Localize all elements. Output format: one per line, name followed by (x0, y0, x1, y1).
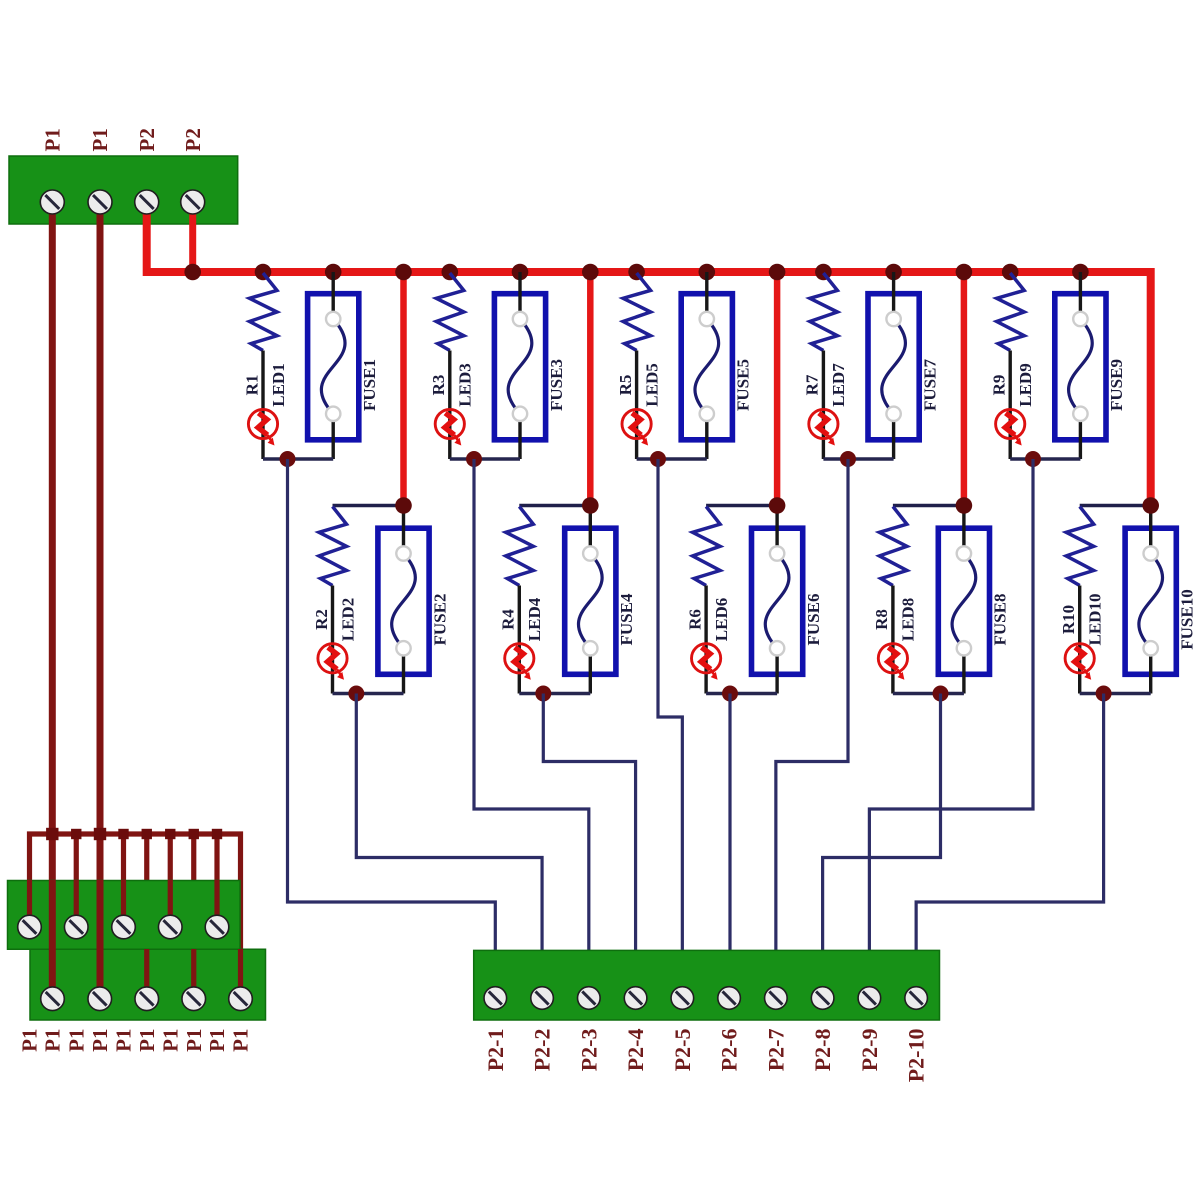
terminal TB4 screw P2-4 (624, 987, 647, 1010)
LED LED9 (996, 409, 1025, 445)
label P1 output 2 (41, 1029, 65, 1052)
wire P1 net vertical from TB1 pin 1 (49, 202, 56, 999)
wire channel 3 output to P2-3 (474, 459, 589, 958)
svg-text:FUSE8: FUSE8 (991, 594, 1010, 646)
terminal TB1 screw 2 (88, 190, 112, 214)
svg-text:P2-3: P2-3 (576, 1029, 601, 1072)
fuse FUSE3 pins (513, 312, 527, 421)
label LED5 (642, 363, 661, 406)
fuse FUSE6 pins (770, 546, 784, 655)
label R7 (803, 374, 822, 395)
wire R4 to LED4 (518, 586, 521, 694)
junction bus at R1 (255, 264, 272, 281)
terminal TB1 screw 3 (135, 190, 159, 214)
label P1 output 8 (182, 1029, 206, 1052)
svg-text:P1: P1 (41, 1029, 65, 1052)
junction drop at FUSE2 top (395, 497, 412, 514)
junction bus at R7 (815, 264, 832, 281)
fuse FUSE5 body (681, 294, 732, 440)
junction P1 bus (71, 829, 81, 839)
junction bus at drop 2 (395, 264, 412, 281)
svg-text:P1: P1 (229, 1029, 253, 1052)
wire FUSE5 bottom lead (705, 414, 708, 459)
fuse FUSE7 element curve (882, 319, 906, 414)
svg-text:P2-9: P2-9 (857, 1029, 882, 1072)
svg-text:LED2: LED2 (338, 598, 357, 641)
terminal block TB1 (P1/P2 input) (9, 156, 238, 224)
label R5 (616, 375, 635, 396)
label P2-6 (717, 1029, 742, 1072)
terminal TB4 screw P2-3 (578, 987, 601, 1010)
label FUSE3 (547, 359, 566, 411)
label LED8 (899, 598, 918, 641)
wire channel 9 output to P2-9 (869, 459, 1033, 958)
wire drop over TB3 pin 4 (191, 949, 196, 999)
wire bottom rail channel 1 (263, 457, 333, 460)
fuse FUSE8 body (938, 528, 989, 674)
junction drop at FUSE6 top (769, 497, 786, 514)
svg-text:LED6: LED6 (712, 598, 731, 641)
wire drop over TB2 pin 5 (214, 880, 219, 927)
LED LED7 (809, 409, 838, 445)
fuse FUSE8 pins (957, 546, 971, 655)
label FUSE5 (734, 359, 753, 411)
label R3 (429, 375, 448, 396)
label FUSE9 (1107, 359, 1126, 411)
wire channel 5 output to P2-5 (658, 459, 682, 958)
wire top rail channel 10 (1080, 504, 1151, 508)
label R2 (312, 609, 331, 630)
svg-text:R9: R9 (989, 375, 1008, 396)
wire channel 6 output to P2-6 (728, 694, 731, 959)
wire FUSE8 bottom lead (962, 648, 965, 693)
terminal TB4 screw P2-8 (811, 987, 834, 1010)
wire P1 bus drop to TB3 pin 2 (97, 834, 102, 999)
fuse FUSE5 element curve (695, 319, 719, 414)
svg-text:P2-4: P2-4 (623, 1029, 648, 1072)
label LED1 (269, 363, 288, 406)
label FUSE8 (991, 594, 1010, 646)
fuse FUSE5 pins (700, 312, 714, 421)
label LED9 (1016, 363, 1035, 406)
label P2-5 (670, 1029, 695, 1072)
fuse FUSE2 pins (396, 546, 410, 655)
wire bottom rail channel 2 (333, 692, 404, 695)
wire channel 2 output to P2-2 (356, 694, 542, 959)
terminal block TB3 (P1 outputs lower) (30, 949, 266, 1020)
junction P1 bus (118, 829, 128, 839)
terminal TB4 screw P2-9 (858, 987, 881, 1010)
wire FUSE9 bottom lead (1079, 414, 1082, 459)
wire channel 8 output to P2-8 (823, 694, 941, 959)
fuse FUSE8 element curve (952, 554, 976, 649)
junction bus at R5 (628, 264, 645, 281)
wire R1 to LED1 (261, 351, 264, 460)
label LED6 (712, 598, 731, 641)
svg-text:LED8: LED8 (899, 598, 918, 641)
svg-text:FUSE3: FUSE3 (547, 359, 566, 411)
junction P1 bus crossing pin2 (94, 828, 106, 840)
wire P1 net over TB2/TB3 (pin1) (49, 880, 56, 999)
wire channel 1 output to P2-1 (288, 459, 496, 958)
junction drop at FUSE10 top (1142, 497, 1159, 514)
svg-text:P1: P1 (112, 1029, 136, 1052)
wire channel 7 output to P2-7 (776, 459, 848, 958)
junction bus at FUSE1 (325, 264, 342, 281)
label P2-8 (810, 1029, 835, 1072)
svg-text:LED4: LED4 (525, 597, 544, 641)
wire FUSE7 top lead (892, 272, 895, 319)
label R10 (1059, 605, 1078, 634)
label P2-3 (576, 1029, 601, 1072)
svg-text:FUSE10: FUSE10 (1177, 589, 1196, 649)
svg-text:P1: P1 (40, 128, 64, 151)
terminal TB2 screw 5 (205, 915, 229, 939)
svg-text:P2-8: P2-8 (810, 1029, 835, 1072)
junction bus at drop 8 (956, 264, 973, 281)
junction bus at FUSE3 (512, 264, 529, 281)
svg-text:R7: R7 (803, 374, 822, 395)
wire drop over TB2 pin 1 (27, 880, 32, 927)
wire drop over TB2 pin 4 (168, 880, 173, 927)
wire drop over TB3 pin 5 (238, 949, 243, 999)
svg-text:P1: P1 (158, 1029, 182, 1052)
junction bus at FUSE9 (1072, 264, 1089, 281)
label P1 output 5 (112, 1029, 136, 1052)
svg-text:P1: P1 (88, 1029, 112, 1052)
wire R2 to LED2 (331, 586, 334, 694)
svg-text:P2-10: P2-10 (904, 1029, 929, 1083)
label FUSE6 (804, 594, 823, 646)
svg-text:R3: R3 (429, 375, 448, 396)
junction bus at drop 6 (769, 264, 786, 281)
wire drop over TB2 pin 2 (74, 880, 79, 927)
svg-text:FUSE1: FUSE1 (360, 359, 379, 411)
label P1 output 10 (229, 1029, 253, 1052)
junction node channel 2 output (348, 686, 364, 702)
wire P1 net vertical from TB1 pin 2 (97, 202, 104, 999)
wire P2 bus drop to FUSE8 (961, 272, 968, 506)
junction bus at drop 4 (582, 264, 599, 281)
wire FUSE2 bottom lead (402, 648, 405, 693)
fuse FUSE3 body (494, 294, 545, 440)
label P2-9 (857, 1029, 882, 1072)
terminal TB2 screw 3 (112, 915, 136, 939)
label LED3 (456, 363, 475, 406)
junction node channel 7 output (840, 451, 856, 467)
label LED4 (525, 597, 544, 641)
wire R3 to LED3 (448, 351, 451, 460)
wire FUSE4 top lead (589, 506, 592, 554)
svg-text:LED7: LED7 (829, 363, 848, 407)
junction bus at R3 (442, 264, 459, 281)
label TB1 pin 1 P1 (40, 128, 64, 151)
LED LED10 (1065, 644, 1094, 680)
label P1 output 7 (158, 1029, 182, 1052)
svg-text:P1: P1 (18, 1029, 42, 1052)
LED LED8 (878, 644, 907, 680)
wire FUSE3 top lead (518, 272, 521, 319)
resistor R3 (436, 273, 464, 351)
label FUSE4 (617, 593, 636, 645)
junction P1 bus crossing pin1 (46, 828, 58, 840)
fuse FUSE6 element curve (765, 554, 789, 649)
resistor R4 (506, 507, 534, 586)
fuse FUSE7 pins (886, 312, 900, 421)
junction node channel 6 output (722, 686, 738, 702)
resistor R1 (250, 273, 278, 351)
junction drop at FUSE4 top (582, 497, 599, 514)
junction node channel 8 output (933, 686, 949, 702)
resistor R10 (1066, 507, 1094, 586)
wire P1 bus drop to TB2 pin 2 (74, 834, 79, 927)
fuse FUSE9 element curve (1069, 319, 1093, 414)
wire FUSE10 top lead (1149, 506, 1152, 554)
fuse FUSE1 pins (326, 312, 340, 421)
junction node channel 4 output (535, 686, 551, 702)
wire top rail channel 4 (519, 504, 590, 508)
terminal TB2 screw 1 (18, 915, 42, 939)
label R4 (499, 609, 518, 630)
LED LED5 (622, 409, 651, 445)
svg-text:P1: P1 (205, 1029, 229, 1052)
LED LED1 (248, 409, 277, 445)
fuse FUSE10 element curve (1139, 554, 1163, 649)
wire FUSE1 top lead (332, 272, 335, 319)
wire R7 to LED7 (822, 351, 825, 460)
junction P1 bus (165, 829, 175, 839)
terminal TB4 screw P2-1 (484, 987, 507, 1010)
label R9 (989, 375, 1008, 396)
terminal TB4 screw P2-10 (905, 987, 928, 1010)
terminal block TB4 (P2 fused outputs) (474, 950, 940, 1020)
svg-text:R5: R5 (616, 375, 635, 396)
wire FUSE1 bottom lead (332, 414, 335, 459)
wire P1 net over TB2/TB3 (pin2) (97, 880, 104, 999)
terminal TB2 screw 4 (158, 915, 182, 939)
wire bottom rail channel 4 (519, 692, 590, 695)
svg-text:P2-5: P2-5 (670, 1029, 695, 1072)
svg-text:LED10: LED10 (1085, 594, 1104, 646)
wire FUSE4 bottom lead (589, 648, 592, 693)
label LED7 (829, 363, 848, 407)
terminal TB3 screw 5 (229, 987, 253, 1011)
wire P2 net from TB1 pin 4 to bus (189, 202, 196, 272)
svg-text:FUSE9: FUSE9 (1107, 359, 1126, 411)
svg-text:FUSE5: FUSE5 (734, 359, 753, 411)
svg-text:FUSE7: FUSE7 (920, 359, 939, 411)
wire channel 10 output to P2-10 (916, 694, 1103, 959)
label R6 (685, 609, 704, 630)
junction node channel 10 output (1096, 686, 1112, 702)
wire P2 bus drop to FUSE2 (400, 272, 407, 506)
label FUSE10 (1177, 589, 1196, 649)
LED LED4 (505, 644, 534, 680)
wire FUSE6 bottom lead (775, 648, 778, 693)
junction bus at R9 (1002, 264, 1019, 281)
junction node channel 1 output (280, 451, 296, 467)
terminal TB4 screw P2-6 (718, 987, 741, 1010)
label FUSE1 (360, 359, 379, 411)
wire FUSE9 top lead (1079, 272, 1082, 319)
wire channel 4 output to P2-4 (543, 694, 635, 959)
wire drop over TB2 pin 3 (121, 880, 126, 927)
svg-text:LED9: LED9 (1016, 363, 1035, 406)
svg-text:R4: R4 (499, 609, 518, 630)
wire R6 to LED6 (704, 586, 707, 694)
junction P1 bus (212, 829, 222, 839)
svg-text:FUSE4: FUSE4 (617, 593, 636, 645)
label P1 output 6 (135, 1029, 159, 1052)
terminal TB3 screw 3 (135, 987, 159, 1011)
wire P2 bus drop to FUSE6 (774, 272, 781, 506)
svg-text:P1: P1 (182, 1029, 206, 1052)
wire top rail channel 6 (706, 504, 777, 508)
wire P1 bus drop to TB3 pin 4 (191, 834, 196, 999)
wire R9 to LED9 (1009, 351, 1012, 460)
wire FUSE5 top lead (705, 272, 708, 319)
label P2-10 (904, 1029, 929, 1083)
terminal TB4 screw P2-2 (531, 987, 554, 1010)
fuse FUSE10 pins (1144, 546, 1158, 655)
resistor R8 (879, 507, 907, 586)
junction bus at FUSE5 (699, 264, 716, 281)
wire P1 bus drop to TB2 pin 5 (214, 834, 219, 927)
wire bottom rail channel 8 (893, 692, 964, 695)
wire bottom rail channel 7 (823, 457, 893, 460)
fuse FUSE7 body (868, 294, 919, 440)
fuse FUSE6 body (752, 528, 803, 674)
svg-text:R10: R10 (1059, 605, 1078, 634)
terminal TB2 screw 2 (64, 915, 88, 939)
wire bottom rail channel 9 (1010, 457, 1080, 460)
svg-text:FUSE2: FUSE2 (430, 594, 449, 646)
junction P1 bus (95, 829, 105, 839)
label TB1 pin 2 P1 (88, 128, 112, 151)
label R1 (242, 375, 261, 396)
label P1 output 4 (88, 1029, 112, 1052)
wire P1 bus drop to TB2 pin 3 (121, 834, 126, 927)
svg-text:P1: P1 (88, 128, 112, 151)
svg-text:R6: R6 (685, 609, 704, 630)
resistor R7 (810, 273, 838, 351)
junction node channel 9 output (1025, 451, 1041, 467)
junction P1 bus (189, 829, 199, 839)
terminal TB1 screw 1 (40, 190, 64, 214)
fuse FUSE1 body (308, 294, 359, 440)
label P1 output 9 (205, 1029, 229, 1052)
resistor R6 (693, 507, 721, 586)
fuse FUSE4 pins (583, 546, 597, 655)
fuse FUSE9 body (1055, 294, 1106, 440)
terminal block TB2 (P1 outputs upper) (8, 881, 241, 950)
wire top rail channel 2 (333, 504, 404, 508)
label LED2 (338, 598, 357, 641)
wire FUSE7 bottom lead (892, 414, 895, 459)
fuse FUSE4 body (565, 528, 616, 674)
wire P1 bus drop to TB2 pin 4 (168, 834, 173, 927)
wire P1 distribution bus (30, 834, 241, 999)
wire FUSE6 top lead (775, 506, 778, 554)
wire drop over TB3 pin 2 (97, 949, 102, 999)
label R8 (872, 609, 891, 630)
junction bus at FUSE7 (885, 264, 902, 281)
svg-text:P2-7: P2-7 (763, 1029, 788, 1072)
resistor R9 (997, 273, 1024, 351)
label TB1 pin 4 P2 (181, 128, 205, 151)
label P2-4 (623, 1029, 648, 1072)
label P2-7 (763, 1029, 788, 1072)
junction P2 bus at TB1 pin 4 (184, 264, 201, 281)
LED LED6 (692, 644, 721, 680)
wire FUSE3 bottom lead (518, 414, 521, 459)
svg-text:R8: R8 (872, 609, 891, 630)
wire P2 power bus horizontal (147, 202, 1151, 506)
fuse FUSE2 body (378, 528, 429, 674)
wire drop over TB3 pin 3 (144, 949, 149, 999)
junction drop at FUSE8 top (956, 497, 973, 514)
svg-text:P2: P2 (181, 128, 205, 151)
terminal TB1 screw 4 (181, 190, 205, 214)
wire R10 to LED10 (1078, 586, 1081, 694)
fuse FUSE2 element curve (392, 554, 416, 649)
terminal TB3 screw 1 (41, 987, 65, 1011)
fuse FUSE10 body (1125, 528, 1176, 674)
label FUSE2 (430, 594, 449, 646)
resistor R2 (319, 507, 347, 586)
svg-text:P2-6: P2-6 (717, 1029, 742, 1072)
wire FUSE8 top lead (962, 506, 965, 554)
svg-text:R1: R1 (242, 375, 261, 396)
svg-text:P1: P1 (64, 1029, 88, 1052)
junction node channel 3 output (466, 451, 482, 467)
terminal TB3 screw 2 (88, 987, 112, 1011)
wire top rail channel 8 (893, 504, 964, 508)
label TB1 pin 3 P2 (135, 128, 159, 151)
label P2-1 (483, 1029, 508, 1072)
label P1 output 3 (64, 1029, 88, 1052)
wire bottom rail channel 10 (1080, 692, 1151, 695)
svg-text:LED5: LED5 (642, 363, 661, 406)
junction P1 bus (142, 829, 152, 839)
svg-text:P2-2: P2-2 (530, 1029, 555, 1072)
label LED10 (1085, 594, 1104, 646)
wire P2 bus drop to FUSE4 (587, 272, 594, 506)
junction node channel 5 output (650, 451, 666, 467)
svg-text:LED1: LED1 (269, 363, 288, 406)
svg-text:P2: P2 (135, 128, 159, 151)
terminal TB4 screw P2-7 (765, 987, 788, 1010)
fuse FUSE1 element curve (321, 319, 345, 414)
wire bottom rail channel 3 (450, 457, 520, 460)
terminal TB4 screw P2-5 (671, 987, 694, 1010)
svg-text:R2: R2 (312, 609, 331, 630)
wire bottom rail channel 6 (706, 692, 777, 695)
wire bottom rail channel 5 (637, 457, 707, 460)
LED LED3 (435, 409, 464, 445)
LED LED2 (318, 644, 347, 680)
fuse FUSE9 pins (1073, 312, 1087, 421)
fuse FUSE4 element curve (578, 554, 602, 649)
label P1 output 1 (18, 1029, 42, 1052)
label P2-2 (530, 1029, 555, 1072)
wire P1 bus drop to TB3 pin 3 (144, 834, 149, 999)
resistor R5 (623, 273, 651, 351)
fuse FUSE3 element curve (508, 319, 532, 414)
svg-text:P2-1: P2-1 (483, 1029, 508, 1072)
wire FUSE10 bottom lead (1149, 648, 1152, 693)
svg-text:P1: P1 (135, 1029, 159, 1052)
